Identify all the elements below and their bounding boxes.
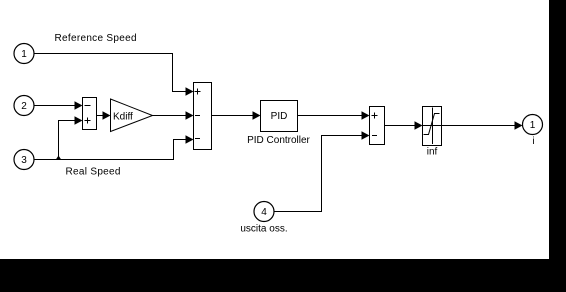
inport 2 <box>14 96 34 116</box>
svg-text:i: i <box>532 136 534 147</box>
svg-text:inf: inf <box>427 147 438 158</box>
inport 4 <box>254 202 274 222</box>
svg-text:4: 4 <box>261 207 267 218</box>
svg-text:1: 1 <box>21 49 27 60</box>
gain Kdiff <box>111 99 153 132</box>
svg-text:1: 1 <box>530 120 536 131</box>
inport 1 <box>14 44 34 64</box>
sum block Sum (3 inputs) <box>194 83 212 150</box>
outport 1 <box>523 115 543 135</box>
svg-text:uscita oss.: uscita oss. <box>240 224 287 235</box>
svg-text:Reference Speed: Reference Speed <box>55 33 137 44</box>
window border bottom <box>0 259 566 292</box>
inport 3 <box>14 150 34 170</box>
svg-text:PID: PID <box>271 111 288 122</box>
svg-text:PID Controller: PID Controller <box>247 135 310 146</box>
wire Sum2 to saturation block <box>385 121 423 130</box>
svg-text:2: 2 <box>21 101 27 112</box>
wire inport2 to Sum1 - input <box>34 101 83 110</box>
wire branch to Sum1 + input <box>59 116 83 159</box>
wire inport4 to Sum2 - input <box>274 131 370 211</box>
svg-text:3: 3 <box>21 155 27 166</box>
wire Sum1 to gain Kdiff <box>97 111 111 120</box>
svg-text:Kdiff: Kdiff <box>113 112 133 123</box>
wire PID Controller to Sum2 + input <box>298 111 370 120</box>
saturation block inf <box>423 107 442 146</box>
wire inport1 to Sum + input <box>34 54 194 96</box>
wire inport3 to Sum bottom - input <box>34 135 194 159</box>
sum block Sum1 <box>83 98 97 130</box>
wire saturation to outport <box>442 121 523 130</box>
junction node on Real Speed wire <box>56 156 62 161</box>
wire Sum to PID Controller <box>212 111 261 120</box>
wire Kdiff to Sum - input <box>153 111 194 120</box>
PID Controller block <box>261 101 298 132</box>
sum block Sum2 <box>370 107 385 145</box>
window border right <box>549 0 566 292</box>
svg-text:Real Speed: Real Speed <box>66 167 121 178</box>
